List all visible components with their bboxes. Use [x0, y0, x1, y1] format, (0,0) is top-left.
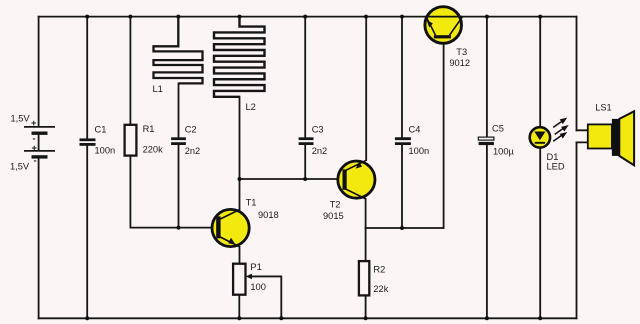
capacitor C3: [299, 139, 314, 144]
svg-text:100n: 100n: [409, 146, 430, 156]
svg-text:C4: C4: [409, 124, 421, 134]
potentiometer P1: [233, 264, 281, 295]
svg-text:100n: 100n: [95, 146, 116, 156]
LED D1 (circle, diode triangle and cathode bar): [530, 127, 550, 147]
svg-text:T3: T3: [456, 47, 467, 57]
junction R1/top rail: [128, 15, 132, 19]
svg-text:-: -: [34, 156, 37, 166]
wire R1 bottom lead to T1 base: [130, 156, 216, 228]
svg-text:P1: P1: [250, 262, 261, 272]
wire P1 wiper return: [252, 276, 281, 318]
svg-text:1,5V: 1,5V: [10, 162, 30, 172]
svg-text:+: +: [31, 118, 37, 128]
svg-text:C3: C3: [312, 124, 324, 134]
resistor R2: [359, 261, 369, 295]
junction D1/top rail: [538, 15, 542, 19]
transistor T3 (PNP 9012: circle on rail, base bar below, two diagonals, emitter arrow): [425, 7, 462, 44]
wire T2 emitter to rail: [365, 17, 367, 160]
junction D1/bottom rail: [538, 316, 542, 320]
junction C1/top rail: [85, 15, 89, 19]
junction C5/bottom rail: [485, 316, 489, 320]
wire negative bottom rail: [39, 317, 577, 319]
svg-text:L2: L2: [246, 102, 256, 112]
inductor L2: [214, 17, 265, 97]
svg-text:9018: 9018: [258, 210, 279, 220]
wire L2 exit to T1 collector: [239, 97, 241, 210]
wire T2 base line: [240, 178, 343, 180]
junction T2 emitter/top rail: [364, 15, 368, 19]
junction C4/node line: [400, 226, 404, 230]
wire C3 column: [304, 17, 306, 179]
svg-text:100µ: 100µ: [493, 146, 515, 156]
junction R2/bottom rail: [364, 316, 368, 320]
battery polarity signs: [31, 118, 38, 166]
junction L1/top rail: [176, 15, 180, 19]
resistor R1: [125, 125, 137, 156]
wire P1 bottom lead: [238, 295, 240, 319]
svg-text:9015: 9015: [323, 211, 344, 221]
svg-text:T2: T2: [330, 200, 341, 210]
svg-text:R2: R2: [373, 265, 385, 275]
loudspeaker LS1 (body, magnet bar, cone): [588, 111, 634, 165]
svg-text:L1: L1: [153, 84, 163, 94]
svg-text:9012: 9012: [449, 58, 470, 68]
svg-text:LED: LED: [547, 162, 565, 172]
wire R1 top lead: [129, 17, 131, 125]
wire loudspeaker stubs: [577, 130, 589, 142]
wire battery column: [38, 17, 40, 319]
svg-text:2n2: 2n2: [185, 146, 201, 156]
junction P1 wiper/bottom rail: [279, 316, 283, 320]
wire C1 column: [86, 17, 88, 319]
svg-text:1,5V: 1,5V: [11, 113, 31, 123]
svg-text:2n2: 2n2: [312, 146, 328, 156]
wire positive top rail: [39, 16, 577, 18]
wire R2 leads: [365, 228, 367, 318]
junction L2 exit/T2 base line: [238, 177, 242, 181]
svg-text:+: +: [32, 143, 38, 153]
junction C5/top rail: [485, 15, 489, 19]
transistor T1 (NPN 9018: circle, base bar, collector and emitter with arrow): [212, 209, 249, 247]
wire T3 base down: [443, 39, 445, 229]
wire T1 emitter to P1: [239, 247, 241, 264]
inductor L1: [154, 17, 203, 84]
junction C3/top rail: [303, 15, 307, 19]
wire loudspeaker feeds: [576, 17, 578, 319]
svg-text:100: 100: [250, 282, 266, 292]
wire C4 column: [401, 17, 403, 228]
capacitor C4: [395, 139, 411, 144]
svg-text:R1: R1: [143, 124, 155, 134]
wire node T2C/R2/C4/T3B horizontal: [366, 227, 444, 229]
junction C1/bottom rail: [85, 316, 89, 320]
wire T2 collector down: [365, 199, 367, 228]
wire D1 column: [539, 17, 541, 319]
junction C4/top rail: [400, 15, 404, 19]
capacitor C1: [80, 140, 96, 145]
svg-text:22k: 22k: [373, 284, 388, 294]
svg-text:C2: C2: [185, 124, 197, 134]
battery B1 cells (plates): [24, 127, 55, 157]
LED D1 light emission arrows: [553, 119, 567, 142]
wire C5 column: [486, 17, 488, 319]
svg-text:C1: C1: [95, 124, 107, 134]
junction L2/top rail: [238, 15, 242, 19]
svg-text:T1: T1: [246, 197, 257, 207]
capacitor C5 electrolytic: [478, 137, 494, 145]
svg-text:220k: 220k: [143, 145, 164, 155]
wire L1 exit through C2 to T1 base line: [178, 83, 180, 227]
svg-text:C5: C5: [492, 123, 504, 133]
transistor T2 (PNP 9015: circle, base bar, emitter arrow toward base, collector): [338, 160, 375, 199]
junction C2/T1 base line: [177, 226, 181, 230]
svg-text:LS1: LS1: [595, 102, 612, 112]
capacitor C2: [171, 139, 186, 144]
svg-text:-: -: [33, 134, 36, 144]
junction P1/bottom rail: [237, 316, 241, 320]
junction C3/T2 base line: [303, 177, 307, 181]
